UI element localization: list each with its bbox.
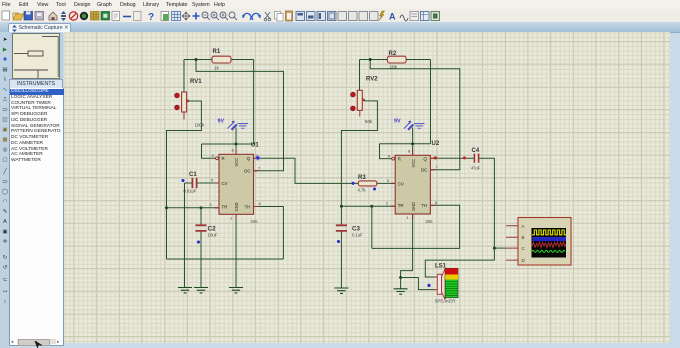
wire rail to RV1 top: [183, 60, 185, 93]
svg-text:DC: DC: [244, 169, 250, 174]
wire C1 leads: [185, 183, 220, 288]
svg-text:8: 8: [232, 148, 234, 153]
wire R1 top rail left: [184, 59, 254, 61]
svg-text:A: A: [522, 224, 525, 229]
svg-text:GND: GND: [234, 202, 239, 211]
svg-text:R: R: [222, 156, 225, 161]
ground (U2 GND / speaker): [394, 289, 408, 294]
svg-text:RV1: RV1: [190, 79, 202, 85]
svg-text:555: 555: [426, 219, 434, 224]
op-amp U1 555 timer: [210, 143, 261, 225]
wire U1 GND to ground: [235, 214, 237, 287]
svg-text:C1: C1: [189, 172, 197, 178]
svg-text:TH: TH: [245, 204, 251, 209]
wire U1 bottom rail: [167, 258, 284, 260]
pin state dot U1 Q: [255, 155, 261, 161]
svg-text:4: 4: [212, 153, 215, 158]
capacitor C2: [195, 225, 217, 243]
ground (U1 GND): [229, 288, 243, 293]
svg-text:10k: 10k: [390, 65, 398, 70]
wire R2 junction to U2 DC riser: [370, 60, 460, 170]
wire U2 GND jog to ground node: [401, 214, 413, 278]
svg-text:CV: CV: [398, 181, 404, 186]
svg-text:B: B: [522, 235, 525, 240]
svg-text:C4: C4: [472, 148, 480, 154]
wire C2 leads: [200, 208, 202, 288]
svg-text:U2: U2: [432, 141, 440, 147]
svg-text:0.01uF: 0.01uF: [184, 189, 197, 194]
wire R1 right to VCC rail: [202, 60, 254, 159]
battery B2 9V: [394, 119, 425, 130]
wire ground node to speaker minus: [401, 278, 435, 290]
wire U2 VCC rail: [380, 144, 431, 159]
wire scope C channel: [494, 247, 506, 249]
resistor R2: [387, 51, 406, 70]
oscilloscope: [506, 218, 571, 266]
pin state dot R3 left: [351, 182, 354, 185]
svg-text:RV2: RV2: [366, 77, 378, 83]
wire battery B1 lead and VCC stub: [235, 128, 237, 155]
capacitor C4: [463, 148, 481, 171]
resistor R3: [358, 175, 377, 193]
svg-text:DC: DC: [421, 168, 427, 173]
wire R3 to U2 CV: [377, 182, 395, 184]
svg-text:47uF: 47uF: [471, 166, 481, 171]
wire RV2 wiper return: [341, 101, 377, 206]
svg-text:U1: U1: [251, 143, 259, 149]
svg-text:SPEAKER: SPEAKER: [435, 299, 456, 304]
wire U2 TH return: [372, 205, 460, 248]
ground (C2 branch): [194, 288, 208, 293]
svg-text:555: 555: [251, 219, 259, 224]
ground (C1 branch): [178, 288, 192, 293]
svg-text:?: ?: [148, 12, 154, 22]
svg-text:C3: C3: [352, 226, 360, 233]
svg-text:5: 5: [387, 178, 389, 183]
svg-text:C: C: [522, 246, 525, 251]
svg-text:A: A: [389, 12, 396, 22]
svg-text:7: 7: [258, 165, 260, 170]
wire U1 Q to R3: [254, 158, 359, 183]
wire U2 Q to C4: [430, 158, 494, 260]
svg-text:R3: R3: [358, 175, 366, 181]
capacitor C3: [336, 225, 363, 243]
svg-text:C2: C2: [208, 226, 217, 233]
wire U1 TH return: [254, 207, 284, 260]
svg-text:VCC: VCC: [234, 158, 239, 167]
svg-text:TR: TR: [398, 203, 404, 208]
wire junction tap to DC riser: [196, 60, 284, 171]
svg-text:9V: 9V: [394, 119, 401, 125]
capacitor C1: [181, 172, 197, 194]
svg-text:R1: R1: [213, 49, 221, 55]
svg-text:6: 6: [259, 201, 261, 206]
potentiometer RV2: [351, 77, 379, 125]
wire speaker plus to scope node: [425, 260, 494, 277]
svg-text:10uF: 10uF: [208, 233, 218, 238]
svg-text:D: D: [522, 258, 525, 263]
svg-text:R2: R2: [389, 51, 397, 57]
wire R2 top rail: [360, 60, 431, 144]
svg-text:2: 2: [210, 202, 212, 207]
pin state dot U2 Q: [434, 156, 437, 159]
svg-text:VCC: VCC: [411, 159, 416, 168]
svg-text:7: 7: [436, 164, 438, 169]
wire C3 leads: [340, 206, 342, 288]
svg-text:2: 2: [386, 201, 388, 206]
junction nodes: [165, 58, 496, 279]
svg-text:R: R: [398, 157, 401, 162]
wire ground node stub: [400, 278, 402, 289]
svg-text:TH: TH: [421, 203, 427, 208]
svg-text:Q: Q: [247, 156, 251, 161]
svg-text:50k: 50k: [365, 119, 373, 124]
wire U2 TR net: [341, 205, 395, 207]
svg-text:6: 6: [435, 200, 437, 205]
op-amp U2 555 timer: [386, 141, 440, 224]
svg-text:9V: 9V: [218, 119, 225, 125]
svg-text:0.1uF: 0.1uF: [352, 233, 363, 238]
wire U1 TR net: [167, 207, 220, 209]
svg-text:1k: 1k: [214, 66, 220, 71]
svg-text:100k: 100k: [195, 123, 205, 128]
svg-text:5: 5: [211, 178, 213, 183]
speaker LS1: [427, 264, 458, 304]
svg-text:1: 1: [407, 215, 409, 220]
wire RV1 wiper return: [167, 101, 202, 259]
svg-text:1: 1: [230, 216, 232, 221]
ground (C3 branch): [334, 288, 348, 293]
resistor R1: [212, 49, 231, 71]
svg-text:8: 8: [408, 149, 410, 154]
svg-text:4.7k: 4.7k: [358, 188, 367, 193]
wire battery B2 lead and U2 VCC stub: [412, 128, 414, 156]
battery B1 9V: [218, 119, 249, 130]
svg-text:4: 4: [388, 153, 391, 158]
potentiometer RV1: [175, 79, 205, 128]
svg-text:GND: GND: [411, 202, 416, 211]
svg-text:Q: Q: [423, 157, 427, 162]
svg-text:TR: TR: [222, 205, 228, 210]
svg-text:CV: CV: [222, 181, 228, 186]
